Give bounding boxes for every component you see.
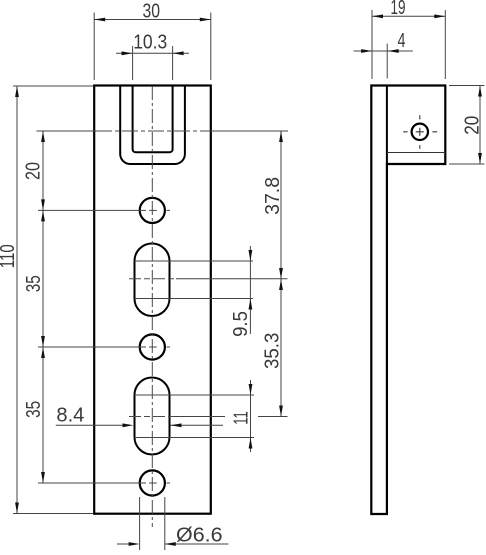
U-slot outer profile (120, 86, 185, 165)
circle bottom center line (38, 482, 146, 484)
dimension 30 (94, 13, 211, 81)
dimension 110 (13, 86, 93, 514)
svg-text:35: 35 (23, 401, 45, 418)
obround upper center line (129, 278, 176, 280)
dimension 20 side view (449, 86, 485, 165)
dimension 8.4 leader (56, 424, 123, 426)
dimension 35.3 (280, 279, 282, 417)
svg-text:35: 35 (23, 275, 45, 292)
dimension chain 20/35/35 line (42, 131, 44, 483)
svg-text:30: 30 (143, 0, 161, 22)
slot obround lower (135, 378, 170, 455)
dimension 19 (372, 10, 445, 79)
dimension 10.3 (116, 46, 189, 80)
dimension 37.8 (280, 131, 282, 279)
svg-text:10.3: 10.3 (133, 32, 167, 54)
svg-text:9.5: 9.5 (230, 311, 252, 337)
vertical centerline front view (151, 86, 153, 527)
U-slot inner profile (133, 86, 173, 153)
slot obround upper tangent lines (135, 260, 254, 262)
svg-text:8.4: 8.4 (56, 405, 84, 427)
svg-text:35.3: 35.3 (262, 333, 284, 369)
svg-text:Ø6.6: Ø6.6 (176, 525, 223, 547)
side view flange web boundary (386, 86, 388, 165)
svg-text:110: 110 (0, 244, 19, 268)
dimension 4 (386, 44, 388, 79)
obround lower center line (129, 416, 172, 418)
hole circle bottom (140, 470, 165, 495)
slot obround upper (135, 244, 170, 317)
svg-text:20: 20 (23, 162, 45, 180)
hole circle middle (140, 334, 165, 359)
front view plate outline (94, 86, 211, 514)
side view flange inner thickness line (387, 152, 445, 154)
U-slot horizontal centerline / extension y=131 (37, 130, 97, 132)
svg-text:19: 19 (391, 0, 406, 19)
hole circle top (140, 198, 165, 223)
dimension 9.5 (249, 246, 251, 334)
side view outline (371, 86, 445, 515)
dimension dia 6.6 (117, 497, 229, 550)
svg-text:37.8: 37.8 (262, 177, 284, 215)
side view hole centerlines (403, 115, 437, 149)
slot obround lower tangent lines (135, 394, 255, 396)
svg-text:4: 4 (398, 30, 406, 52)
side view hole circle (412, 124, 428, 140)
svg-text:11: 11 (230, 411, 252, 425)
circle middle center line (38, 346, 146, 348)
dimension 11 (250, 380, 252, 452)
svg-text:20: 20 (461, 116, 483, 135)
circle top center line (38, 209, 146, 211)
